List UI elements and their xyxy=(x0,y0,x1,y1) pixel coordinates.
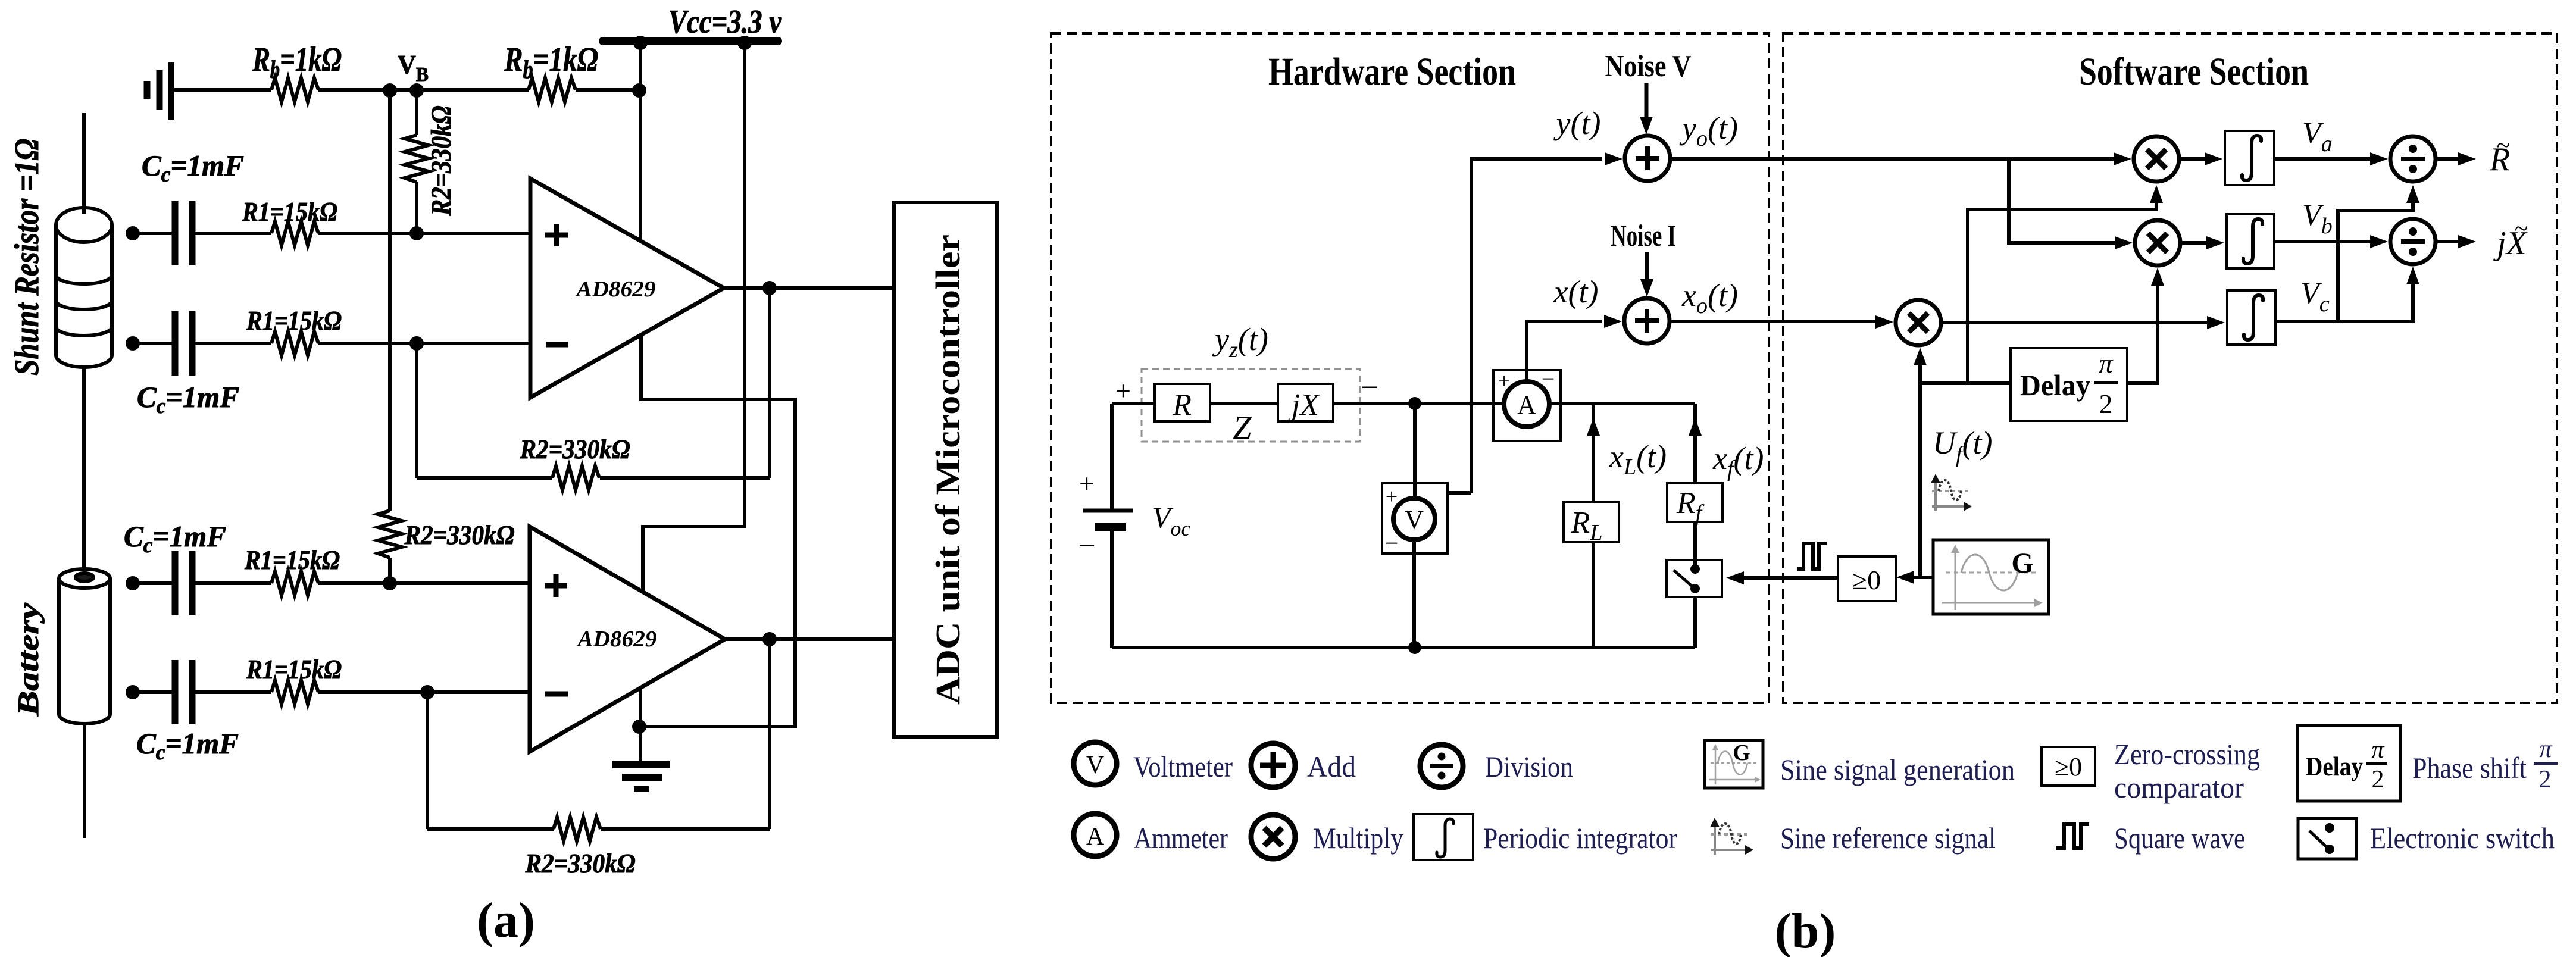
legend integrator box xyxy=(1414,814,1473,860)
wire voltmeter to y(t) riser xyxy=(1448,491,1471,495)
wire Vcc to Rb node to op1 V+ xyxy=(639,41,642,242)
zero-crossing comparator box xyxy=(1838,556,1896,601)
node op1 minus input xyxy=(409,336,424,351)
wire xo(t) adder to multiplier M3 xyxy=(1670,320,1875,323)
voltmeter V1 xyxy=(1382,404,1448,648)
ground G2 (below op2) xyxy=(612,765,670,789)
node voltmeter bottom xyxy=(1408,641,1421,654)
ADC unit box xyxy=(894,202,997,737)
svg-text:yo(t): yo(t) xyxy=(1679,110,1738,151)
multiplier M3 xyxy=(1896,300,1941,345)
square wave symbol xyxy=(1797,543,1827,569)
wire op1 Vminus to ground route xyxy=(639,336,795,727)
battery Voc xyxy=(1078,404,1133,648)
node op2 output xyxy=(762,632,777,646)
feedback resistor R2 op1 xyxy=(417,466,770,490)
legend delay box xyxy=(2297,725,2400,801)
svg-text:Noise I: Noise I xyxy=(1611,219,1676,253)
wire comparator to switch xyxy=(1739,576,1838,580)
svg-text:Rb=1kΩ: Rb=1kΩ xyxy=(504,40,598,84)
wire M3 to integrator I3 xyxy=(1941,321,2207,324)
node row4 terminal xyxy=(126,685,140,699)
svg-text:R1=15kΩ: R1=15kΩ xyxy=(244,545,340,575)
svg-text:Rb=1kΩ: Rb=1kΩ xyxy=(252,40,342,84)
svg-text:Battery: Battery xyxy=(11,602,45,717)
svg-text:−: − xyxy=(1542,365,1555,392)
svg-text:π: π xyxy=(2539,736,2552,763)
svg-text:≥0: ≥0 xyxy=(2055,752,2082,781)
node row1 terminal xyxy=(126,226,140,240)
svg-text:Delay: Delay xyxy=(2306,751,2363,781)
capacitor Cc row3 xyxy=(175,551,192,615)
ammeter A1 xyxy=(1493,365,1561,441)
node Rb2-Vcc xyxy=(632,83,646,98)
svg-text:R2=330kΩ: R2=330kΩ xyxy=(426,106,457,217)
wire Uf riser xyxy=(1918,357,1922,577)
arrow Noise I into adder xyxy=(1640,252,1653,297)
label jX tilde xyxy=(2493,215,2528,262)
svg-text:jX: jX xyxy=(1288,388,1320,422)
op-amp U2 AD8629 xyxy=(530,527,725,752)
resistor Rb2 xyxy=(529,78,576,102)
svg-text:R2=330kΩ: R2=330kΩ xyxy=(404,520,515,550)
legend sine reference icon xyxy=(1710,818,1753,855)
svg-text:Z: Z xyxy=(1233,409,1252,446)
svg-text:≥0: ≥0 xyxy=(1852,565,1881,595)
wire cap to R1 row1 xyxy=(195,232,271,235)
resistor R1 row2 xyxy=(271,331,318,355)
svg-text:+: + xyxy=(1115,376,1131,406)
svg-text:Noise V: Noise V xyxy=(1605,49,1692,83)
hardware section dashed box xyxy=(1051,33,1769,703)
electronic switch SW1 xyxy=(1667,560,1722,648)
wire row2 to cap xyxy=(133,342,172,345)
wire op1 output down to feedback xyxy=(768,288,771,478)
resistor R2 vertical mid xyxy=(378,511,402,583)
svg-text:G: G xyxy=(2011,548,2033,579)
wire y(t) from voltmeter to adder xyxy=(1471,159,1602,493)
wire row1 to cap xyxy=(133,232,172,235)
capacitor Cc row2 xyxy=(175,311,192,376)
legend square wave icon xyxy=(2056,824,2089,848)
svg-text:+: + xyxy=(1079,468,1095,499)
ground G1 (top-left) xyxy=(147,62,171,120)
svg-text:~: ~ xyxy=(2515,215,2528,243)
wire R1 to op2 plus xyxy=(318,581,530,585)
legend multiply symbol xyxy=(1251,815,1295,859)
svg-text:Cc=1mF: Cc=1mF xyxy=(136,727,239,764)
divider D2 xyxy=(2390,219,2436,264)
svg-text:A: A xyxy=(1086,823,1105,850)
wire Uf branch to M1 xyxy=(1968,198,2156,383)
shunt resistor body xyxy=(56,208,112,367)
wire cap to R1 row2 xyxy=(195,342,271,345)
svg-text:(a): (a) xyxy=(477,893,535,948)
legend comparator box xyxy=(2042,747,2095,786)
wire ammeter to RL and Rf xyxy=(1549,402,1695,405)
wire op2 Vminus to ground xyxy=(639,689,642,763)
svg-text:2: 2 xyxy=(2539,766,2552,793)
branch Rf xyxy=(1689,404,1702,562)
load resistor box RL xyxy=(1564,502,1619,545)
wire Vcc right drop xyxy=(643,41,745,593)
svg-text:+: + xyxy=(1498,369,1510,393)
svg-text:+: + xyxy=(1386,484,1398,508)
shunt resistor top stub xyxy=(82,113,86,214)
wire Uf branch to delay xyxy=(1920,381,2011,385)
svg-text:2: 2 xyxy=(2099,389,2113,419)
wire op1 minus down to feedback xyxy=(415,343,418,478)
legend ammeter symbol xyxy=(1074,814,1117,856)
svg-text:xo(t): xo(t) xyxy=(1681,277,1738,318)
adder S2 xyxy=(1624,298,1670,343)
svg-text:Periodic integrator: Periodic integrator xyxy=(1483,821,1677,855)
resistor R1 row1 xyxy=(271,221,318,245)
wire I2 to divider D2 xyxy=(2274,240,2370,243)
svg-text:R2=330kΩ: R2=330kΩ xyxy=(520,434,630,464)
sine generator box G xyxy=(1933,540,2049,614)
node op2 plus input xyxy=(383,576,397,590)
branch RL xyxy=(1587,404,1600,648)
legend add symbol xyxy=(1251,743,1295,787)
svg-text:Vcc=3.3 v: Vcc=3.3 v xyxy=(668,4,782,40)
adder S1 xyxy=(1625,136,1670,181)
svg-text:Shunt Resistor =1Ω: Shunt Resistor =1Ω xyxy=(7,139,46,376)
svg-text:−: − xyxy=(1078,529,1095,563)
software section dashed box xyxy=(1783,33,2557,703)
svg-text:Zero-crossing: Zero-crossing xyxy=(2114,737,2260,771)
capacitor Cc row1 xyxy=(175,201,192,265)
legend label Zero-crossing comparator xyxy=(2114,737,2260,804)
wire cap to R1 row4 xyxy=(195,690,271,694)
legend label Phase shift pi/2 xyxy=(2412,736,2552,793)
wire R1 to op2 minus xyxy=(318,690,530,694)
wire op2 output down to feedback xyxy=(768,639,771,829)
wire M2 to integrator I2 xyxy=(2180,241,2206,245)
wire R1 to op1 plus xyxy=(318,232,530,235)
legend switch box xyxy=(2298,818,2356,859)
node op2 Vminus junction xyxy=(632,720,646,734)
wire op1 output to ADC xyxy=(724,286,894,290)
Vcc rail xyxy=(603,37,778,45)
wire Rb2 to Vcc drop xyxy=(576,88,639,92)
svg-text:Cc=1mF: Cc=1mF xyxy=(124,520,226,557)
node VB-left xyxy=(383,83,397,98)
resistor R1 row3 xyxy=(271,571,318,595)
svg-text:Ammeter: Ammeter xyxy=(1134,821,1228,855)
legend sine generator icon xyxy=(1705,740,1763,788)
svg-text:Hardware Section: Hardware Section xyxy=(1268,50,1516,93)
arrow Noise V into adder xyxy=(1640,83,1653,135)
svg-text:V: V xyxy=(1086,752,1104,779)
svg-text:comparator: comparator xyxy=(2114,771,2244,804)
svg-text:Division: Division xyxy=(1485,750,1573,783)
svg-text:Delay: Delay xyxy=(2020,368,2090,402)
divider D1 xyxy=(2390,136,2436,182)
svg-text:AD8629: AD8629 xyxy=(576,627,656,652)
impedance dashed box Z xyxy=(1142,369,1360,442)
svg-text:G: G xyxy=(1733,740,1750,765)
wire row4 to cap xyxy=(133,690,172,694)
wire I1 to divider D1 xyxy=(2274,157,2370,161)
svg-text:Cc=1mF: Cc=1mF xyxy=(142,149,244,186)
svg-text:Sine reference signal: Sine reference signal xyxy=(1780,821,1996,855)
svg-text:Multiply: Multiply xyxy=(1313,821,1403,855)
bottom loop wire xyxy=(1112,646,1695,649)
wire VB-left vertical xyxy=(388,90,392,511)
wire ground to Rb1 xyxy=(174,88,271,92)
resistor R1 row4 xyxy=(271,680,318,704)
node row2 terminal xyxy=(126,336,140,351)
svg-text:~: ~ xyxy=(2497,132,2511,159)
wire yo(t) adder to multiplier M1 xyxy=(1670,157,2114,161)
node op1 plus input xyxy=(409,226,424,240)
wire M1 to integrator I1 xyxy=(2179,157,2205,161)
wire op2 output to ADC xyxy=(725,637,894,641)
svg-text:−: − xyxy=(1361,371,1378,405)
svg-text:yz(t): yz(t) xyxy=(1212,321,1268,362)
node VB xyxy=(409,83,424,98)
svg-text:Sine signal generation: Sine signal generation xyxy=(1780,753,2015,786)
node op1 output xyxy=(762,281,777,295)
integrator box I2 xyxy=(2227,214,2274,268)
node op2 minus input xyxy=(420,685,434,699)
arrow generator to comparator xyxy=(1909,576,1933,579)
svg-text:(b): (b) xyxy=(1775,903,1836,957)
battery body xyxy=(59,569,110,724)
svg-text:R1=15kΩ: R1=15kΩ xyxy=(246,654,342,684)
resistor box R xyxy=(1155,384,1210,422)
svg-text:Cc=1mF: Cc=1mF xyxy=(137,380,239,418)
wire op2 minus down to feedback xyxy=(426,692,429,829)
label R tilde xyxy=(2489,132,2510,178)
wire shunt to battery xyxy=(82,366,86,570)
svg-text:R1=15kΩ: R1=15kΩ xyxy=(242,196,337,227)
svg-text:2: 2 xyxy=(2372,766,2384,793)
svg-text:Software Section: Software Section xyxy=(2079,50,2309,93)
wire x(t) from ammeter to adder xyxy=(1527,321,1602,383)
svg-text:π: π xyxy=(2099,348,2114,379)
multiplier M2 xyxy=(2135,220,2180,265)
node row3 terminal xyxy=(126,576,140,590)
wire Rb1 to VB node xyxy=(318,88,529,92)
svg-text:R2=330kΩ: R2=330kΩ xyxy=(525,848,636,878)
node Vcc rail left xyxy=(633,36,648,50)
wire Vc branch to divider D1 bottom xyxy=(2338,196,2413,321)
feedback resistor R2 op2 xyxy=(427,817,770,841)
sine reference icon xyxy=(1931,474,1972,511)
multiplier M1 xyxy=(2134,136,2179,182)
svg-text:AD8629: AD8629 xyxy=(575,277,655,302)
svg-text:y(t): y(t) xyxy=(1553,105,1601,141)
svg-text:Voltmeter: Voltmeter xyxy=(1133,750,1233,783)
capacitor Cc row4 xyxy=(175,660,192,724)
svg-text:π: π xyxy=(2371,736,2384,764)
svg-text:R: R xyxy=(1172,388,1192,422)
op-amp U1 AD8629 xyxy=(530,179,724,398)
reactance box jX xyxy=(1278,384,1333,422)
wire delay to M2 xyxy=(2127,281,2158,383)
svg-text:−: − xyxy=(1385,530,1399,556)
delay box xyxy=(2011,348,2127,421)
node Vcc rail right xyxy=(737,36,752,50)
svg-text:V: V xyxy=(1405,505,1424,534)
svg-text:A: A xyxy=(1517,390,1536,420)
wire row3 to cap xyxy=(133,581,172,585)
wire R1 to op1 minus xyxy=(318,342,530,345)
svg-text:Phase shift: Phase shift xyxy=(2412,751,2527,784)
svg-text:ADC unit of Microcontroller: ADC unit of Microcontroller xyxy=(929,234,967,705)
wire yo branch to multiplier M2 xyxy=(2009,159,2115,243)
integrator box I1 xyxy=(2225,131,2274,185)
svg-text:xL(t): xL(t) xyxy=(1609,439,1667,480)
node voltmeter tap xyxy=(1408,397,1421,410)
arrow D1 to R output xyxy=(2436,157,2462,161)
arrow D2 to jX output xyxy=(2436,240,2462,243)
main loop wire top xyxy=(1112,402,1506,405)
integrator box I3 xyxy=(2227,290,2275,345)
svg-text:R1=15kΩ: R1=15kΩ xyxy=(246,305,342,336)
svg-text:xf(t): xf(t) xyxy=(1712,440,1764,481)
svg-text:Square wave: Square wave xyxy=(2114,821,2245,855)
svg-text:Electronic switch: Electronic switch xyxy=(2370,821,2555,855)
battery bottom stub xyxy=(83,723,86,838)
wire cap to R1 row3 xyxy=(195,581,271,585)
svg-text:Add: Add xyxy=(1307,750,1356,783)
legend division symbol xyxy=(1420,745,1463,787)
resistor Rb1 xyxy=(271,78,318,102)
legend voltmeter symbol xyxy=(1074,742,1117,785)
svg-text:x(t): x(t) xyxy=(1553,274,1599,309)
wire I3 Vc to divider D2 bottom xyxy=(2275,277,2413,321)
resistor R2 vertical top xyxy=(405,90,429,233)
feedback resistor box Rf xyxy=(1667,483,1722,526)
